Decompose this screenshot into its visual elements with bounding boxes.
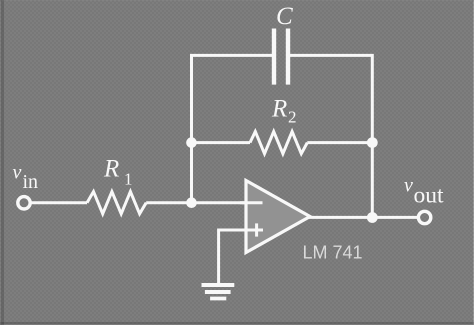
node A junction dot bbox=[186, 197, 197, 208]
output node junction dot bbox=[367, 212, 378, 223]
svg-text:2: 2 bbox=[288, 108, 297, 127]
node C2 junction dot (R2 right) bbox=[367, 137, 378, 148]
svg-text:LM 741: LM 741 bbox=[303, 243, 363, 263]
vout terminal bbox=[418, 211, 430, 223]
wire R1 to op-amp minus input (through node A) bbox=[146, 201, 262, 204]
svg-text:in: in bbox=[23, 171, 39, 193]
op-amp plus sign bbox=[240, 229, 263, 232]
ground bbox=[202, 285, 235, 299]
svg-text:C: C bbox=[276, 3, 293, 30]
capacitor C plates bbox=[274, 29, 288, 85]
wire op-amp output to vout terminal bbox=[309, 216, 418, 219]
op-amp U1 LM741 triangle bbox=[246, 181, 310, 253]
resistor R1 bbox=[87, 192, 146, 214]
wire R2 right to node C2 bbox=[307, 141, 372, 144]
svg-text:1: 1 bbox=[124, 170, 133, 189]
wire left vertical from node A up and over to capacitor bbox=[192, 55, 273, 202]
node B junction dot (R2 left) bbox=[186, 137, 197, 148]
wire capacitor right plate over and down to output node bbox=[290, 55, 372, 217]
wire op-amp plus input from ground riser bbox=[219, 230, 263, 283]
svg-text:v: v bbox=[404, 175, 413, 197]
svg-text:R: R bbox=[271, 96, 287, 123]
wire R2 left from node B bbox=[192, 141, 251, 144]
op-amp minus sign (inside, continuous with input wire) bbox=[240, 201, 263, 204]
svg-text:out: out bbox=[414, 183, 445, 209]
resistor R2 bbox=[250, 132, 307, 154]
vin terminal bbox=[18, 197, 30, 209]
svg-text:v: v bbox=[13, 162, 22, 184]
wire input from vin terminal to R1 bbox=[31, 201, 88, 204]
svg-text:R: R bbox=[103, 156, 119, 183]
